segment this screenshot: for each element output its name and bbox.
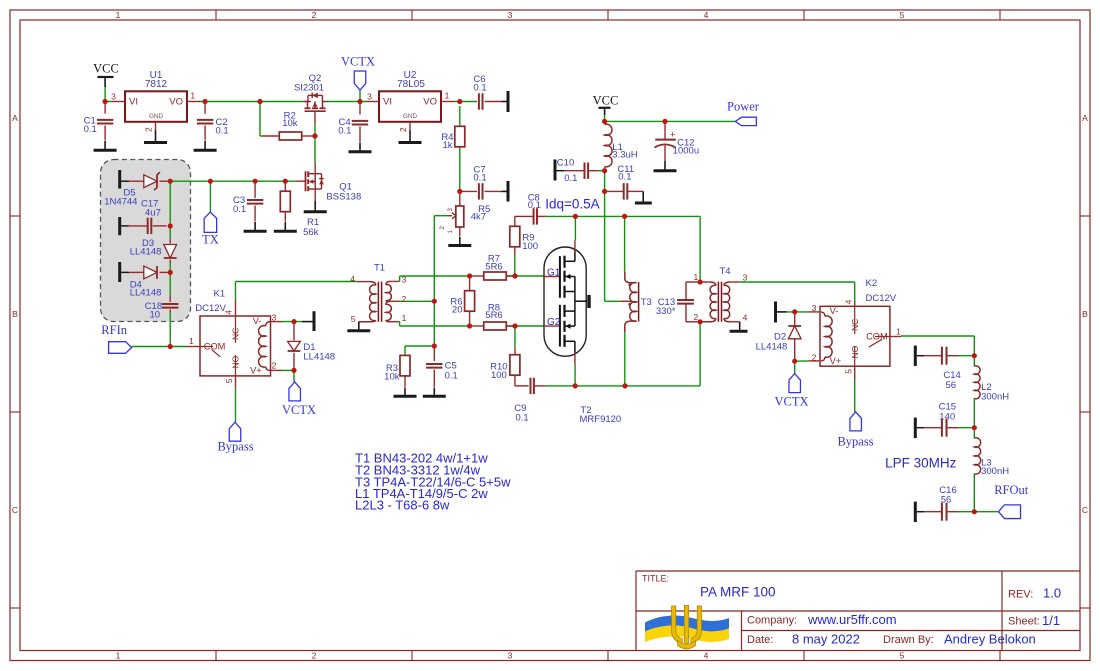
- diode D3 LL4148: [130, 238, 177, 263]
- svg-text:V+: V+: [830, 356, 842, 366]
- capacitor C15 140: [915, 402, 958, 438]
- wire VCC power rail to Power connector: [604, 115, 606, 122]
- svg-text:LL4148: LL4148: [130, 247, 162, 258]
- svg-text:SI2301: SI2301: [294, 83, 324, 94]
- svg-text:Power: Power: [727, 100, 760, 114]
- global label Power: [735, 117, 756, 125]
- svg-text:1: 1: [694, 272, 699, 282]
- svg-text:2: 2: [144, 127, 154, 132]
- svg-text:56: 56: [946, 380, 957, 391]
- wire T4 pin3 to K2 pin4: [740, 281, 855, 283]
- wire VCTX label stem: [359, 90, 361, 102]
- svg-text:300nH: 300nH: [981, 466, 1009, 477]
- svg-text:3: 3: [812, 303, 817, 313]
- svg-text:0.1: 0.1: [84, 124, 97, 135]
- svg-text:8 may 2022: 8 may 2022: [792, 632, 860, 647]
- wire K1 pin4 up and across to T1 pin4: [235, 282, 237, 302]
- svg-text:4: 4: [843, 299, 853, 304]
- svg-text:RFOut: RFOut: [994, 483, 1029, 497]
- global label Bypass under K1: [229, 422, 241, 441]
- wire R2 branch down from rail: [259, 102, 261, 137]
- svg-text:GND: GND: [149, 113, 163, 120]
- svg-text:VI: VI: [383, 96, 392, 107]
- wire C15 lead: [958, 427, 974, 429]
- title block: [636, 571, 1080, 651]
- wire U1 output rail to Q2: [199, 101, 303, 103]
- svg-text:BSS138: BSS138: [326, 191, 361, 202]
- svg-text:0.1: 0.1: [338, 126, 351, 137]
- capacitor C4 0.1: [338, 102, 371, 152]
- resistor R3 10k: [384, 355, 416, 396]
- svg-text:4: 4: [704, 10, 709, 20]
- svg-text:56k: 56k: [303, 227, 319, 238]
- svg-text:3: 3: [111, 91, 116, 101]
- wire K1 pin3 to D1 top node: [282, 321, 303, 323]
- svg-text:NC: NC: [231, 328, 241, 340]
- svg-text:Bypass: Bypass: [217, 439, 253, 453]
- svg-text:Company:: Company:: [747, 615, 797, 627]
- svg-text:1.0: 1.0: [1043, 586, 1061, 601]
- svg-text:RFIn: RFIn: [101, 323, 127, 337]
- wire C14 node to L2: [958, 355, 974, 357]
- regulator U2 78L05: [367, 70, 454, 143]
- svg-text:0.1: 0.1: [516, 412, 529, 423]
- svg-text:1: 1: [190, 90, 195, 100]
- svg-text:+: +: [670, 130, 675, 140]
- svg-text:COM: COM: [866, 332, 888, 342]
- svg-text:VCC: VCC: [93, 62, 119, 76]
- svg-text:NC: NC: [850, 319, 860, 331]
- ground at T4 pin4: [739, 322, 741, 332]
- svg-text:4u7: 4u7: [145, 207, 161, 218]
- resistor R8 5R6: [473, 302, 515, 330]
- power symbol VCC left: [98, 76, 114, 78]
- svg-text:COM: COM: [204, 342, 226, 352]
- wire C17 node to D3: [169, 226, 171, 239]
- wire U2 output to C6: [454, 101, 476, 103]
- capacitor C3 0.1: [233, 181, 267, 231]
- wire T1 pin3 to G1 line: [400, 275, 473, 277]
- power symbol VCC center: [599, 107, 611, 109]
- wire RFIn to K1 COM: [132, 346, 187, 348]
- wire D5 node down to C17: [169, 181, 171, 226]
- capacitor C14 56: [915, 346, 961, 391]
- svg-text:0.1: 0.1: [473, 173, 486, 184]
- capacitor C10 0.1: [555, 158, 598, 185]
- wire R4 top: [459, 106, 461, 126]
- svg-text:1N4744: 1N4744: [104, 197, 137, 208]
- resistor R2 10k: [262, 110, 315, 140]
- wire Q2 drain to U2 input: [327, 101, 367, 103]
- svg-text:5: 5: [900, 651, 905, 661]
- regulator U1 7812: [111, 70, 200, 143]
- protection network dashed group box: [101, 160, 191, 322]
- transistor T2 MRF9120 dual mosfet capsule: [544, 247, 621, 425]
- svg-text:0.1: 0.1: [233, 204, 246, 215]
- capacitor C13 330*: [656, 282, 700, 322]
- capacitor C2 0.1: [194, 102, 229, 151]
- svg-text:T1: T1: [374, 263, 385, 274]
- svg-text:TITLE:: TITLE:: [642, 574, 669, 584]
- capacitor C16 56: [915, 485, 958, 522]
- wire TX label stem: [209, 181, 211, 212]
- svg-text:Bypass: Bypass: [837, 435, 873, 449]
- capacitor C18 10: [145, 296, 179, 321]
- svg-text:C10: C10: [557, 158, 574, 169]
- capacitor C11 0.1: [605, 164, 652, 203]
- svg-text:100: 100: [491, 370, 507, 381]
- svg-text:3: 3: [402, 275, 407, 285]
- svg-text:3: 3: [367, 91, 372, 101]
- resistor R10 100: [490, 347, 528, 386]
- svg-text:1000u: 1000u: [673, 145, 699, 156]
- svg-text:3: 3: [272, 312, 277, 322]
- svg-text:1: 1: [189, 336, 194, 346]
- svg-text:VCTX: VCTX: [282, 403, 316, 417]
- svg-text:NO: NO: [850, 345, 860, 358]
- global label Bypass under K2: [850, 412, 862, 431]
- svg-text:2: 2: [312, 10, 317, 20]
- svg-text:1: 1: [116, 651, 121, 661]
- wire FET drain A stub: [574, 216, 576, 240]
- svg-text:NO: NO: [231, 355, 241, 368]
- svg-text:1: 1: [445, 90, 450, 100]
- capacitor C6 0.1: [473, 74, 508, 112]
- svg-text:A: A: [12, 113, 18, 123]
- svg-text:5: 5: [843, 369, 853, 374]
- global label VCTX under K1: [289, 382, 301, 401]
- inductor L1 3.3uH: [605, 124, 638, 167]
- T2 common source flange: [575, 300, 587, 302]
- capacitor C8 0.1: [528, 193, 546, 225]
- svg-text:2: 2: [272, 361, 277, 371]
- svg-text:GND: GND: [403, 113, 417, 120]
- svg-text:B: B: [12, 309, 18, 319]
- ground at K2 pin3: [777, 311, 787, 313]
- svg-text:K1: K1: [214, 288, 226, 299]
- capacitor C9 0.1: [514, 378, 545, 424]
- relay K2 DC12V: [809, 278, 902, 380]
- wire T3 bottom to drain B rail: [624, 332, 626, 386]
- svg-text:3: 3: [743, 273, 748, 283]
- svg-text:V-: V-: [253, 316, 262, 326]
- wire L1 feed down to T3 center tap: [604, 191, 606, 301]
- svg-text:140: 140: [939, 411, 955, 422]
- svg-text:C: C: [1082, 505, 1088, 515]
- svg-text:DC12V: DC12V: [195, 303, 226, 314]
- svg-text:C: C: [12, 505, 18, 515]
- svg-text:Date:: Date:: [747, 634, 773, 646]
- diode D5 1N4744 zener: [104, 170, 166, 208]
- svg-text:330*: 330*: [656, 306, 676, 317]
- svg-text:4k7: 4k7: [471, 212, 486, 223]
- transformer winding notes: [355, 450, 511, 512]
- svg-text:1: 1: [116, 10, 121, 20]
- svg-text:VO: VO: [169, 96, 183, 107]
- diode D1 LL4148: [288, 322, 336, 371]
- wire D3 to D4 node: [169, 262, 171, 273]
- svg-text:5: 5: [900, 10, 905, 20]
- capacitor C5 0.1: [423, 346, 458, 396]
- svg-text:0.1: 0.1: [445, 370, 458, 381]
- wire K2 COM to LPF input: [901, 335, 974, 337]
- transformer T3: [620, 271, 651, 332]
- svg-text:2: 2: [402, 294, 407, 304]
- wire T3 top to drain A rail: [624, 216, 626, 271]
- transistor Q2 SI2301 p-mosfet: [294, 73, 328, 124]
- svg-text:1/1: 1/1: [1042, 613, 1060, 628]
- wire drain B rail: [545, 385, 700, 387]
- inductor L2 300nH: [974, 366, 1009, 403]
- svg-text:REV:: REV:: [1008, 589, 1033, 601]
- svg-text:0.1: 0.1: [528, 200, 541, 211]
- svg-text:LL4148: LL4148: [303, 351, 335, 362]
- svg-text:VCC: VCC: [593, 94, 619, 108]
- svg-text:VO: VO: [423, 96, 437, 107]
- wire C16 lead: [958, 511, 974, 513]
- svg-text:1: 1: [402, 313, 407, 323]
- svg-text:Andrey Belokon: Andrey Belokon: [944, 632, 1036, 647]
- ukraine flag logo with trident: [645, 606, 729, 650]
- wire drain A rail with C8: [545, 215, 700, 217]
- diode D2 LL4148: [756, 312, 802, 361]
- svg-text:3: 3: [508, 651, 513, 661]
- wire D4 node down to C18: [169, 272, 171, 295]
- svg-text:T3: T3: [641, 297, 652, 308]
- capacitor C1 0.1: [84, 102, 117, 151]
- svg-text:4: 4: [223, 310, 233, 315]
- wire L1 bottom to C10 node: [604, 167, 606, 191]
- wire R5 wiper to T1 center tap column: [434, 215, 447, 217]
- global label RFIn: [109, 342, 132, 354]
- transformer T4: [694, 266, 748, 322]
- wire L3 to C16 node: [973, 428, 975, 439]
- svg-text:3: 3: [508, 10, 513, 20]
- svg-text:G2: G2: [547, 317, 561, 328]
- resistor R4 1k: [441, 126, 464, 151]
- svg-text:VCTX: VCTX: [341, 55, 375, 69]
- wire K2 pin3 to D2 node to ground: [787, 311, 809, 313]
- svg-text:7812: 7812: [145, 79, 168, 90]
- svg-text:10k: 10k: [282, 118, 298, 129]
- global label RFOut: [999, 505, 1021, 519]
- global label VCTX top: [354, 71, 366, 90]
- wire FET drain B stub: [574, 364, 576, 386]
- resistor R1 56k: [274, 181, 319, 238]
- wire R4 bottom to C7/R5 node: [459, 147, 461, 192]
- svg-text:V+: V+: [250, 366, 262, 376]
- svg-text:300nH: 300nH: [981, 391, 1009, 402]
- T2 lower fet gate G2: [544, 301, 575, 364]
- wire L2 to C15 node: [973, 398, 975, 427]
- svg-text:B: B: [1082, 309, 1088, 319]
- svg-text:0.1: 0.1: [216, 125, 229, 136]
- inductor L3 300nH: [974, 438, 1009, 477]
- svg-text:0.1: 0.1: [564, 173, 577, 184]
- svg-text:2: 2: [812, 352, 817, 362]
- svg-text:TX: TX: [202, 233, 219, 247]
- resistor R9 100: [510, 216, 538, 255]
- wire T1 pin1 to G2 line: [400, 325, 473, 327]
- svg-text:Drawn By:: Drawn By:: [883, 634, 934, 646]
- svg-text:4: 4: [704, 651, 709, 661]
- svg-text:K2: K2: [866, 278, 878, 289]
- svg-text:A: A: [1082, 113, 1088, 123]
- svg-text:5R6: 5R6: [485, 310, 502, 321]
- svg-text:Sheet:: Sheet:: [1008, 616, 1040, 628]
- svg-text:VCTX: VCTX: [774, 394, 808, 408]
- global label TX: [204, 212, 217, 233]
- global label VCTX under D2: [789, 374, 801, 393]
- svg-text:2: 2: [312, 651, 317, 661]
- wire K1 pin5 to Bypass: [235, 388, 237, 423]
- svg-text:5R6: 5R6: [485, 261, 502, 272]
- transistor Q1 BSS138 n-mosfet: [297, 163, 362, 212]
- svg-text:1: 1: [896, 326, 901, 336]
- wire K2 pin5 to Bypass: [854, 380, 856, 412]
- svg-text:20: 20: [452, 305, 463, 316]
- svg-text:4: 4: [743, 313, 748, 323]
- svg-text:3.3uH: 3.3uH: [612, 149, 637, 160]
- resistor R6 20: [450, 276, 474, 326]
- transformer T1: [347, 263, 406, 331]
- wire R3 top to C5 node: [404, 346, 406, 355]
- svg-text:L2L3 - T68-6 8w: L2L3 - T68-6 8w: [355, 498, 450, 513]
- wire K1 pin2 to D1 bottom node to VCTX: [282, 369, 295, 371]
- svg-text:www.ur5ffr.com: www.ur5ffr.com: [807, 612, 897, 627]
- diode D4 LL4148: [120, 262, 171, 298]
- svg-text:G1: G1: [547, 268, 561, 279]
- wire C10 lead to node: [597, 170, 605, 172]
- svg-text:LL4148: LL4148: [130, 287, 162, 298]
- svg-text:DC12V: DC12V: [866, 293, 897, 304]
- ground at K1 pin3: [302, 321, 313, 323]
- svg-text:10: 10: [150, 309, 161, 320]
- wire VCC to U1 input rail: [104, 87, 106, 102]
- svg-text:LL4148: LL4148: [756, 342, 788, 353]
- svg-text:VI: VI: [129, 96, 138, 107]
- wire C18 to RFIn node: [169, 312, 171, 347]
- svg-text:0.1: 0.1: [618, 171, 631, 182]
- svg-text:100: 100: [522, 241, 538, 252]
- wire R10 top from G2 node: [514, 326, 516, 347]
- relay K1 DC12V: [187, 288, 283, 387]
- wire K2 pin2 to D2 bottom to VCTX: [795, 360, 809, 362]
- resistor R7 5R6: [473, 254, 515, 281]
- T2 upper fet gate G1: [544, 241, 575, 302]
- svg-text:1k: 1k: [442, 140, 452, 151]
- svg-text:PA MRF 100: PA MRF 100: [700, 585, 776, 600]
- svg-text:5: 5: [224, 378, 234, 383]
- wire D5 output net along gate line: [166, 180, 297, 182]
- wire R9 bottom to G1 node: [514, 255, 516, 276]
- svg-text:MRF9120: MRF9120: [580, 414, 622, 425]
- svg-text:LPF 30MHz: LPF 30MHz: [885, 455, 957, 470]
- svg-text:V-: V-: [830, 306, 839, 316]
- trimmer R5 4k7: [440, 191, 490, 245]
- wire T1 pin2 to bias column: [400, 300, 435, 302]
- svg-text:0.1: 0.1: [473, 83, 486, 94]
- svg-text:Idq=0.5A: Idq=0.5A: [545, 197, 599, 212]
- wire C16 node to RFOut: [974, 511, 998, 513]
- capacitor C12 1000u electrolytic: [654, 121, 700, 170]
- svg-text:78L05: 78L05: [397, 79, 425, 90]
- svg-text:10k: 10k: [384, 372, 400, 383]
- capacitor C17 4u7: [120, 198, 167, 235]
- wire Q2 gate to R2 node to Q1 drain: [314, 124, 316, 163]
- svg-text:T4: T4: [719, 266, 730, 277]
- svg-text:56: 56: [941, 494, 952, 505]
- svg-text:4: 4: [350, 274, 355, 284]
- svg-text:2: 2: [398, 127, 408, 132]
- svg-text:5: 5: [351, 314, 356, 324]
- capacitor C7 0.1: [460, 165, 508, 202]
